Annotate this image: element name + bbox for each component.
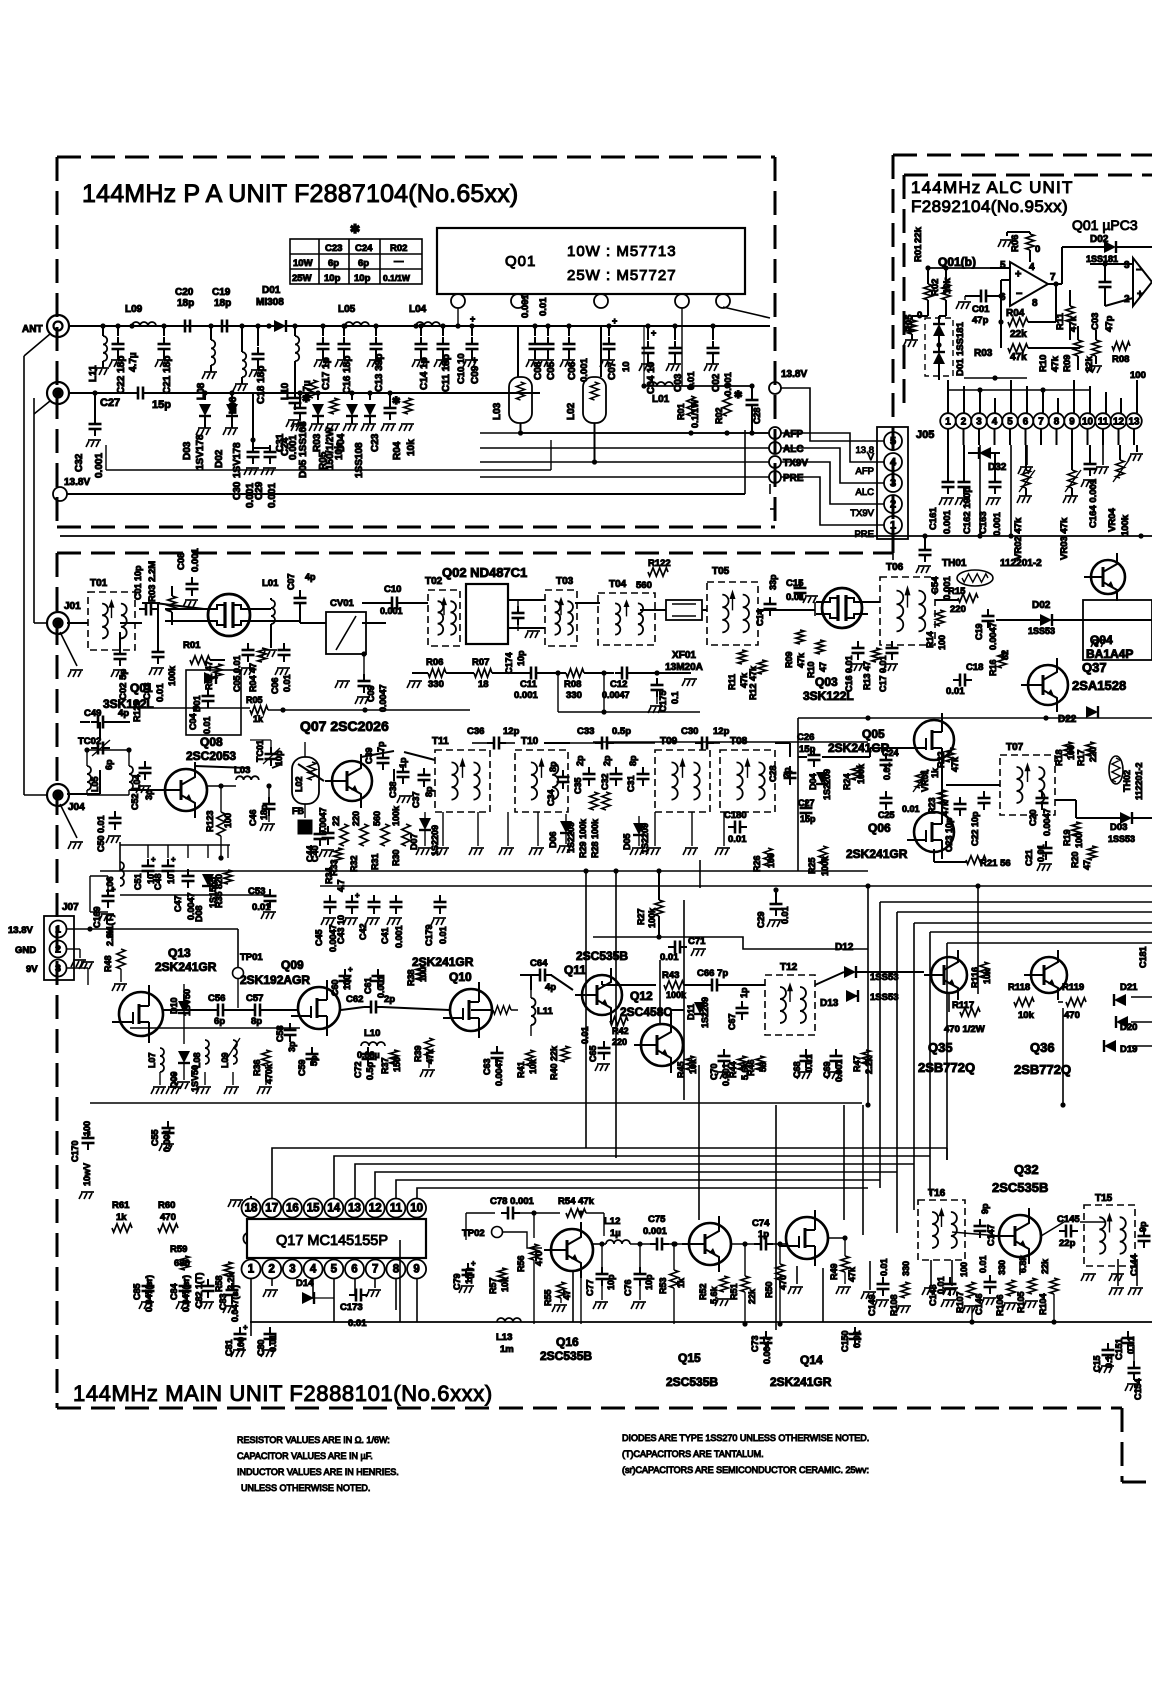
caps resistors row under Q32 — [877, 1284, 890, 1289]
Q36 drop — [1062, 1008, 1064, 1105]
svg-text:T12: T12 — [780, 962, 798, 973]
svg-text:C70: C70 — [709, 1063, 719, 1080]
T06 — [880, 577, 935, 645]
svg-text:0.001: 0.001 — [942, 510, 953, 534]
D09 — [178, 1051, 190, 1063]
svg-text:10: 10 — [621, 361, 632, 372]
svg-text:12: 12 — [1113, 417, 1124, 428]
svg-text:T10: T10 — [521, 736, 539, 747]
port TX9V — [769, 456, 781, 468]
bias cluster bottom wire — [106, 469, 551, 471]
svg-text:C52: C52 — [130, 793, 140, 810]
R29 — [590, 792, 598, 810]
C51 — [142, 866, 155, 871]
svg-text:Q08: Q08 — [200, 735, 223, 749]
svg-text:560: 560 — [636, 580, 652, 591]
svg-text:T11: T11 — [432, 736, 449, 747]
svg-text:C08: C08 — [533, 361, 544, 380]
13.8V node — [53, 487, 67, 501]
C163 — [994, 453, 996, 478]
svg-text:10W: 10W — [293, 258, 313, 269]
svg-text:100: 100 — [418, 967, 428, 982]
svg-text:0.01: 0.01 — [155, 683, 166, 702]
svg-text:10k: 10k — [406, 439, 417, 456]
svg-text:18: 18 — [245, 1203, 258, 1215]
C161 — [947, 445, 949, 478]
band3 path wires — [67, 928, 238, 930]
svg-text:4: 4 — [890, 457, 897, 469]
svg-text:13: 13 — [348, 1203, 361, 1215]
C37 — [418, 775, 431, 780]
svg-text:C62: C62 — [346, 994, 363, 1005]
R18 — [1064, 742, 1072, 756]
svg-text:4p: 4p — [545, 982, 556, 993]
bias box — [186, 670, 241, 735]
svg-text:R49: R49 — [829, 1263, 839, 1280]
svg-text:R61: R61 — [112, 1200, 130, 1211]
svg-text:C04 10: C04 10 — [646, 361, 657, 394]
svg-text:C06: C06 — [270, 677, 280, 694]
Q32 — [999, 1215, 1041, 1257]
svg-text:56: 56 — [758, 1062, 768, 1072]
svg-text:Q06: Q06 — [868, 821, 891, 835]
R48 — [117, 949, 125, 969]
svg-text:R57: R57 — [488, 1277, 498, 1294]
svg-text:47k: 47k — [796, 652, 806, 668]
svg-text:Q16: Q16 — [556, 1335, 579, 1349]
svg-text:10p: 10p — [324, 273, 341, 284]
R52 — [720, 1276, 728, 1292]
Q10 — [450, 989, 492, 1031]
svg-text:0.001: 0.001 — [394, 925, 404, 948]
band2 left tie — [120, 844, 230, 846]
svg-text:47: 47 — [562, 1290, 572, 1300]
svg-text:2: 2 — [961, 417, 967, 428]
table — [290, 239, 422, 284]
svg-text:D04: D04 — [336, 433, 347, 452]
svg-text:Q03: Q03 — [815, 675, 838, 689]
svg-text:10k: 10k — [982, 968, 992, 984]
svg-text:D03: D03 — [182, 441, 193, 460]
svg-text:L01: L01 — [262, 578, 279, 589]
svg-text:J07: J07 — [62, 902, 79, 913]
R09m — [796, 630, 804, 644]
svg-text:C27: C27 — [798, 798, 815, 808]
svg-text:100: 100 — [959, 1262, 969, 1277]
C150 — [849, 1334, 862, 1339]
C52 — [139, 768, 152, 773]
port PRE — [769, 471, 781, 483]
C64 — [540, 969, 545, 982]
svg-text:100: 100 — [1066, 745, 1076, 760]
svg-text:12: 12 — [369, 1203, 382, 1215]
L13 — [497, 1318, 521, 1322]
Q08 — [165, 769, 207, 811]
svg-text:C29: C29 — [756, 911, 766, 928]
svg-text:C77: C77 — [585, 1279, 595, 1296]
R45 — [686, 1056, 694, 1070]
svg-text:T07: T07 — [1006, 742, 1024, 753]
svg-text:0.1: 0.1 — [1104, 1355, 1114, 1368]
C18m — [960, 674, 965, 687]
R122 — [648, 568, 668, 576]
svg-text:100: 100 — [766, 853, 776, 868]
L03 combo — [509, 377, 532, 423]
R01b — [687, 396, 695, 416]
svg-text:R41: R41 — [516, 1061, 526, 1078]
svg-text:5: 5 — [1007, 417, 1013, 428]
L06b — [239, 323, 244, 328]
svg-text:C56: C56 — [208, 993, 225, 1004]
svg-text:1m: 1m — [500, 1344, 514, 1355]
svg-text:C65: C65 — [588, 1045, 598, 1062]
svg-text:R125: R125 — [132, 700, 142, 722]
svg-text:R37: R37 — [380, 1057, 390, 1074]
svg-text:22p: 22p — [1059, 1238, 1076, 1249]
svg-text:✱: ✱ — [302, 394, 311, 405]
C11 — [440, 323, 445, 328]
svg-text:C32: C32 — [600, 773, 610, 790]
svg-text:R105: R105 — [1016, 1291, 1026, 1313]
svg-text:VR04: VR04 — [1107, 508, 1118, 532]
svg-text:R30: R30 — [391, 849, 401, 866]
L06m — [120, 862, 124, 886]
R03a — [1008, 344, 1028, 352]
svg-text:0.001: 0.001 — [162, 1129, 172, 1152]
svg-text:330: 330 — [428, 679, 444, 690]
svg-text:+: + — [651, 328, 656, 338]
C58 — [284, 1030, 297, 1035]
svg-text:0.001: 0.001 — [514, 690, 538, 701]
TP02 — [492, 1227, 503, 1238]
svg-text:D02: D02 — [214, 449, 225, 468]
svg-text:8: 8 — [393, 1264, 400, 1276]
verticals into band4 — [698, 1065, 700, 1220]
svg-text:F2892104(No.95xx): F2892104(No.95xx) — [911, 197, 1068, 216]
C17 — [320, 323, 325, 328]
C14 — [418, 323, 423, 328]
svg-text:R29 100k: R29 100k — [578, 818, 588, 858]
R46 — [756, 1056, 764, 1070]
svg-text:100: 100 — [937, 635, 947, 650]
svg-text:Q01: Q01 — [505, 253, 536, 270]
svg-text:C28: C28 — [768, 765, 778, 782]
C72 — [362, 1054, 375, 1059]
svg-text:100: 100 — [82, 1121, 92, 1136]
svg-text:R54 47k: R54 47k — [558, 1196, 595, 1207]
T07 — [1000, 755, 1055, 815]
T11 — [435, 750, 490, 812]
svg-text:0.5p: 0.5p — [365, 1061, 375, 1080]
svg-text:470: 470 — [534, 1251, 544, 1266]
svg-text:C164 0.001: C164 0.001 — [1088, 478, 1099, 528]
svg-text:1: 1 — [248, 1264, 255, 1276]
C54 — [924, 536, 926, 546]
pin4 drop — [681, 308, 683, 386]
FB — [298, 820, 312, 834]
svg-text:C18 18p: C18 18p — [256, 366, 267, 404]
svg-text:D12: D12 — [835, 942, 854, 953]
svg-text:2SC458C: 2SC458C — [620, 1005, 672, 1019]
D03 — [202, 390, 207, 395]
pin straight drops — [979, 445, 981, 536]
svg-text:L04: L04 — [409, 304, 427, 315]
main line — [69, 325, 770, 327]
svg-text:7: 7 — [1038, 417, 1044, 428]
svg-text:C66 7p: C66 7p — [697, 968, 728, 979]
C81 — [234, 1334, 247, 1339]
xfmr gnd row — [442, 812, 444, 846]
svg-text:R09: R09 — [784, 651, 794, 668]
C151 — [1122, 1338, 1135, 1343]
svg-text:18p: 18p — [214, 298, 231, 309]
L09 — [129, 323, 134, 328]
svg-text:C24: C24 — [882, 748, 899, 758]
R22 — [946, 748, 954, 762]
svg-text:Q01 µPC3: Q01 µPC3 — [1072, 217, 1138, 233]
svg-text:+: + — [111, 885, 116, 894]
svg-text:C01: C01 — [972, 304, 990, 315]
J01 jack — [47, 612, 69, 634]
svg-text:R14: R14 — [925, 631, 935, 648]
svg-text:10: 10 — [166, 874, 176, 884]
svg-text:2SK241GR: 2SK241GR — [155, 960, 217, 974]
svg-text:C08: C08 — [176, 553, 187, 570]
C25 — [880, 798, 893, 803]
svg-text:0.01: 0.01 — [202, 716, 212, 734]
C08 — [532, 323, 537, 328]
svg-text:C28: C28 — [752, 407, 762, 424]
svg-text:+: + — [1015, 268, 1021, 280]
svg-text:8p: 8p — [424, 786, 434, 797]
svg-text:C09: C09 — [366, 685, 376, 702]
svg-text:C29: C29 — [254, 481, 265, 500]
stepped wire y947 — [593, 937, 868, 949]
svg-text:0.001: 0.001 — [834, 1059, 844, 1082]
C48 — [162, 866, 175, 871]
C68 — [800, 1056, 813, 1061]
svg-text:C41: C41 — [380, 927, 390, 944]
svg-text:C22 18p: C22 18p — [116, 356, 127, 394]
svg-text:C12: C12 — [610, 679, 627, 690]
svg-text:L10: L10 — [364, 1028, 380, 1039]
svg-text:D07: D07 — [409, 833, 419, 850]
svg-text:+: + — [355, 891, 360, 900]
svg-text:0.01: 0.01 — [978, 1255, 988, 1273]
svg-text:1SS53: 1SS53 — [870, 992, 899, 1003]
long bus 533 — [892, 539, 894, 546]
svg-text:C17 0.01: C17 0.01 — [878, 655, 888, 692]
svg-text:Q13: Q13 — [168, 946, 191, 960]
svg-text:D03: D03 — [1110, 822, 1127, 833]
svg-text:DIODES ARE TYPE 1SS270 UNLESS: DIODES ARE TYPE 1SS270 UNLESS OTHERWISE … — [622, 1433, 869, 1443]
svg-text:13.8V: 13.8V — [781, 369, 807, 380]
svg-text:33p: 33p — [768, 574, 778, 590]
svg-text:Q12: Q12 — [630, 989, 653, 1003]
MAIN unit border — [57, 552, 893, 555]
svg-text:TX9V: TX9V — [783, 458, 808, 469]
svg-text:0.047(sr): 0.047(sr) — [230, 1285, 240, 1322]
svg-text:144MHz P A UNIT F2887104(No.6: 144MHz P A UNIT F2887104(No.65xx) — [82, 180, 518, 208]
C49 — [98, 716, 103, 729]
svg-text:Q37: Q37 — [1082, 660, 1107, 675]
C26 — [808, 755, 821, 760]
svg-text:L11: L11 — [88, 365, 99, 382]
svg-text:0.01: 0.01 — [282, 674, 292, 692]
svg-text:R50: R50 — [764, 1281, 774, 1298]
C19m — [982, 616, 995, 621]
svg-text:CAPACITOR VALUES ARE IN µF.: CAPACITOR VALUES ARE IN µF. — [237, 1451, 373, 1461]
svg-text:330: 330 — [997, 1260, 1007, 1275]
svg-text:R01: R01 — [913, 244, 924, 262]
svg-text:C170: C170 — [70, 1140, 80, 1162]
svg-text:R12 47k: R12 47k — [748, 665, 758, 700]
svg-text:0.001: 0.001 — [190, 548, 201, 572]
svg-text:R21 56: R21 56 — [980, 858, 1011, 869]
svg-text:3: 3 — [289, 1264, 295, 1276]
svg-text:PRE: PRE — [783, 473, 804, 484]
svg-text:2: 2 — [890, 499, 896, 511]
svg-text:3: 3 — [890, 478, 896, 490]
D04m — [816, 772, 828, 784]
C02 — [710, 323, 715, 328]
svg-text:1p: 1p — [739, 987, 749, 998]
long wire y536 — [60, 535, 1152, 537]
L07 — [160, 1048, 164, 1072]
C01m — [146, 603, 151, 616]
svg-text:CV01: CV01 — [330, 598, 354, 609]
svg-text:0.01: 0.01 — [852, 1330, 862, 1348]
svg-text:R55: R55 — [543, 1289, 553, 1306]
R26 — [764, 848, 772, 866]
svg-text:9p: 9p — [980, 1203, 990, 1214]
svg-text:1S2209: 1S2209 — [700, 997, 710, 1028]
R30 — [402, 824, 410, 846]
svg-text:L09: L09 — [125, 304, 143, 315]
svg-text:R27: R27 — [636, 908, 646, 925]
svg-text:D22: D22 — [1058, 714, 1077, 725]
svg-text:R104: R104 — [1038, 1293, 1048, 1315]
C84 — [179, 1286, 192, 1291]
R40 — [561, 1046, 569, 1062]
C06 — [566, 323, 571, 328]
svg-text:AFP: AFP — [783, 429, 803, 440]
svg-text:Q09: Q09 — [281, 958, 304, 972]
L08m — [205, 1040, 209, 1064]
svg-text:0.01: 0.01 — [580, 1026, 590, 1044]
R49 — [841, 1256, 849, 1272]
C60 C61 — [339, 976, 352, 981]
R39 — [425, 1038, 433, 1056]
svg-text:+: + — [470, 314, 475, 324]
svg-text:0.0047: 0.0047 — [494, 1058, 504, 1086]
svg-text:6: 6 — [351, 1264, 357, 1276]
misc long verticals — [659, 960, 661, 1024]
svg-text:15: 15 — [307, 1203, 320, 1215]
svg-text:0.01: 0.01 — [728, 834, 747, 845]
svg-text:C19: C19 — [212, 287, 231, 298]
svg-text:C38: C38 — [388, 781, 398, 798]
svg-text:10p: 10p — [644, 1274, 654, 1290]
svg-text:0.0047: 0.0047 — [378, 684, 388, 712]
TP01 — [233, 968, 244, 979]
R58 — [224, 1262, 232, 1276]
svg-text:✱: ✱ — [350, 222, 360, 236]
svg-text:6p: 6p — [328, 258, 339, 269]
svg-text:D08: D08 — [194, 905, 204, 922]
R04b — [404, 398, 412, 414]
svg-text:ANT: ANT — [22, 324, 43, 335]
svg-text:—: — — [394, 256, 404, 267]
svg-text:100k: 100k — [391, 805, 401, 826]
wire y433 — [521, 432, 769, 434]
svg-text:0.01: 0.01 — [348, 1318, 367, 1329]
svg-text:C02: C02 — [711, 373, 722, 392]
R37 — [390, 1050, 398, 1064]
R21 — [966, 856, 986, 864]
svg-text:R28 100k: R28 100k — [590, 818, 600, 858]
svg-text:R03: R03 — [974, 348, 993, 359]
C175 — [651, 685, 664, 690]
svg-text:C03: C03 — [1090, 313, 1101, 330]
R47 — [862, 1050, 870, 1064]
svg-text:2SC2053: 2SC2053 — [186, 749, 236, 763]
C13 — [373, 323, 378, 328]
svg-text:L01: L01 — [652, 394, 670, 405]
svg-text:5p: 5p — [309, 1055, 319, 1066]
Q05 — [914, 720, 954, 760]
svg-text:R39: R39 — [413, 1045, 423, 1062]
svg-text:R32: R32 — [349, 855, 359, 872]
svg-text:L02: L02 — [566, 402, 577, 420]
svg-text:Q17 MC145155P: Q17 MC145155P — [276, 1233, 388, 1249]
R10m — [816, 640, 824, 654]
R02b — [723, 396, 731, 416]
svg-text:C146: C146 — [974, 1293, 984, 1315]
svg-text:0.01: 0.01 — [660, 952, 679, 963]
C04 — [645, 323, 650, 328]
svg-text:C68: C68 — [792, 1061, 802, 1078]
svg-text:+: + — [1137, 289, 1143, 300]
svg-text:4p: 4p — [118, 708, 129, 719]
R23 — [938, 790, 946, 804]
R53 — [670, 1270, 678, 1288]
svg-text:1k: 1k — [116, 1212, 127, 1223]
R16 — [998, 652, 1006, 668]
C59 — [306, 1054, 319, 1059]
R05b — [330, 398, 338, 414]
svg-text:D05 1SS108: D05 1SS108 — [298, 421, 309, 478]
svg-text:R44: R44 — [728, 1061, 738, 1078]
svg-text:C16 18p: C16 18p — [342, 356, 353, 394]
svg-text:330: 330 — [566, 690, 582, 701]
svg-text:0.1/1W: 0.1/1W — [383, 273, 411, 283]
R116 — [980, 962, 988, 978]
D01a diode pair — [925, 318, 953, 376]
svg-text:C69: C69 — [822, 1061, 832, 1078]
svg-text:18p: 18p — [177, 298, 194, 309]
Q05/Q06 enclosure — [798, 717, 1152, 719]
C07 — [606, 323, 611, 328]
svg-text:C10 10: C10 10 — [456, 353, 467, 384]
svg-text:T01: T01 — [90, 578, 108, 589]
C56 — [218, 1004, 223, 1017]
svg-text:Q32: Q32 — [1014, 1162, 1039, 1177]
svg-text:0: 0 — [1035, 244, 1040, 255]
svg-text:R122: R122 — [648, 558, 671, 569]
svg-text:C21 18p: C21 18p — [162, 356, 173, 394]
R118 — [1014, 998, 1034, 1006]
